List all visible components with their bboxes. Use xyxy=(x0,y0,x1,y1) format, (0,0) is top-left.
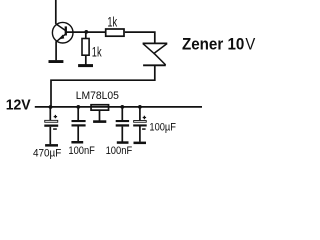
svg-text:Zener 10: Zener 10 xyxy=(182,35,244,54)
node rail C4 xyxy=(138,105,142,109)
wire main rail xyxy=(35,106,202,108)
svg-text:1k: 1k xyxy=(107,14,117,29)
capacitor C1 470uF xyxy=(44,107,58,144)
svg-text:1k: 1k xyxy=(92,44,102,59)
wire collector feed xyxy=(55,0,57,24)
wire emitter xyxy=(55,41,57,60)
wire R1 bottom stem xyxy=(85,56,87,65)
svg-text:V: V xyxy=(245,35,256,54)
ground C2 xyxy=(71,141,83,144)
capacitor C3 100nF xyxy=(116,107,129,142)
svg-text:100µF: 100µF xyxy=(149,121,176,133)
wire R1 top stem xyxy=(85,32,87,38)
capacitor C2 100nF xyxy=(72,107,86,141)
svg-text:100nF: 100nF xyxy=(68,145,95,157)
resistor R1 xyxy=(82,39,89,56)
ground emitter xyxy=(49,60,64,63)
svg-text:100nF: 100nF xyxy=(106,145,133,157)
node rail C2 xyxy=(76,105,80,109)
ground C3 xyxy=(117,141,129,144)
regulator U1 LM78L05 xyxy=(91,105,109,110)
node rail C1 xyxy=(49,105,53,109)
ground R1 xyxy=(78,64,93,67)
svg-text:12V: 12V xyxy=(6,98,31,114)
capacitor C4 100uF xyxy=(133,107,147,142)
node base junction xyxy=(84,30,88,34)
node rail C3 xyxy=(120,105,124,109)
transistor Q1 xyxy=(52,22,73,43)
resistor R2 xyxy=(106,29,124,36)
svg-text:LM78L05: LM78L05 xyxy=(76,90,119,102)
ground U1 xyxy=(93,120,106,123)
svg-text:470µF: 470µF xyxy=(33,147,62,159)
wire R2 to zener corner xyxy=(125,32,155,43)
ground C1 xyxy=(45,144,58,147)
ground C4 xyxy=(134,142,147,145)
wire U1 ground pin xyxy=(99,111,101,121)
wire base xyxy=(66,31,105,33)
wire zener bottom feedback xyxy=(51,65,155,107)
zener D1 xyxy=(143,43,168,65)
